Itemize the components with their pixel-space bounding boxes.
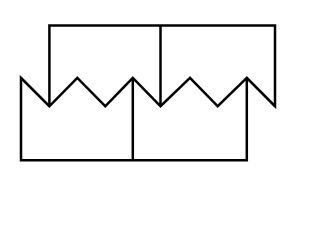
lower band outline (left edge, bottom edge, right edge) (21, 78, 247, 160)
lower band divider (132, 78, 135, 160)
zigzag edge (21, 78, 275, 106)
upper band divider (159, 26, 162, 107)
upper band outline (left edge, top edge, right edge) (49, 26, 275, 107)
